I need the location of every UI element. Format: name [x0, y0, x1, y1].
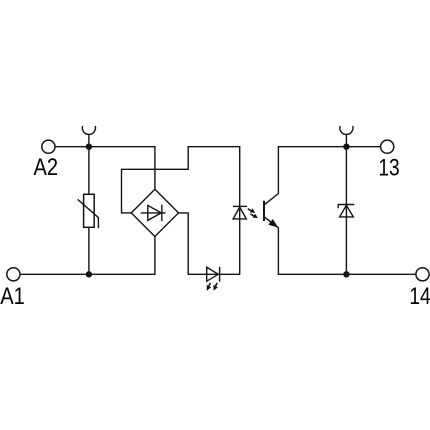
svg-text:A1: A1: [0, 282, 25, 309]
svg-text:14: 14: [409, 282, 430, 310]
svg-text:A2: A2: [34, 153, 59, 180]
svg-text:13: 13: [378, 153, 399, 181]
